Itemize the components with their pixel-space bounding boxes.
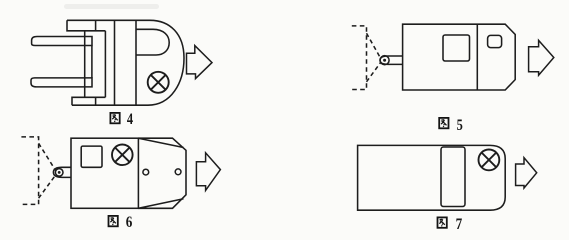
hitch triangle lower dashed line xyxy=(367,62,382,82)
upper fork heel line xyxy=(84,37,86,46)
roof hatch window xyxy=(443,35,470,61)
faint print-through smudge xyxy=(64,4,159,9)
caption glyph 图 (fig 6) xyxy=(109,216,118,226)
mast bottom bar xyxy=(72,97,105,105)
travel arrow (fig 6) xyxy=(196,153,220,191)
mast inner upright xyxy=(104,31,106,98)
travel arrow (fig 5) xyxy=(529,40,554,75)
hitch triangle lower dashed line (fig 6) xyxy=(39,175,56,199)
caption glyph 图 (fig 4) xyxy=(110,113,119,123)
drive axle mark cross (fig 7) xyxy=(482,153,497,168)
lower fork heel line xyxy=(84,78,86,87)
mast right upright xyxy=(114,20,116,105)
left headlight xyxy=(143,169,149,175)
steering column bowl xyxy=(136,29,169,55)
hitch pin circle xyxy=(380,56,389,65)
hitch pin dot (fig 6) xyxy=(58,171,61,174)
drawbar (fig 6) xyxy=(53,167,71,177)
towed implement dashed box (fig 5) xyxy=(352,26,367,90)
roof window (fig 6) xyxy=(81,146,102,167)
hitch pin circle (fig 6) xyxy=(55,169,63,177)
hood outline (fig 6) xyxy=(138,138,186,208)
cab window xyxy=(488,35,502,47)
tractor cab body (fig 6) xyxy=(71,138,138,208)
travel arrow (fig 4) xyxy=(187,46,213,79)
right headlight xyxy=(175,169,181,175)
hitch triangle upper dashed line xyxy=(367,33,382,59)
drawbar (fig 5) xyxy=(380,56,403,64)
mast bottom bar divider xyxy=(95,97,97,105)
drive axle mark circle (fig 7) xyxy=(479,150,500,171)
svg-text:4: 4 xyxy=(127,111,133,128)
cab divider xyxy=(476,24,478,90)
towed implement dashed box (fig 6) xyxy=(21,137,38,205)
hitch triangle upper dashed line (fig 6) xyxy=(39,143,56,171)
drive axle mark cross xyxy=(151,75,166,90)
forklift body outline (fig 4) xyxy=(67,20,184,105)
caption glyph 图 (fig 5) xyxy=(439,118,448,128)
mast top bar xyxy=(67,20,105,31)
svg-text:7: 7 xyxy=(456,216,463,233)
hitch pin dot xyxy=(383,59,386,62)
hood top inner slant xyxy=(138,138,183,147)
svg-text:5: 5 xyxy=(457,117,463,134)
tractor body (fig 5) xyxy=(403,24,516,90)
steering mark circle (fig 6) xyxy=(112,145,133,166)
travel arrow (fig 7) xyxy=(516,158,537,188)
truck body (fig 7) xyxy=(358,145,506,210)
cab panel (fig 7) xyxy=(441,147,465,207)
caption glyph 图 (fig 7) xyxy=(438,217,447,227)
mast top bar divider xyxy=(95,20,97,31)
lower fork xyxy=(31,78,92,87)
upper fork xyxy=(32,37,92,46)
steering mark cross xyxy=(115,148,130,163)
carriage segment between forks xyxy=(91,46,93,78)
carriage bar xyxy=(84,31,86,98)
svg-text:6: 6 xyxy=(126,214,133,231)
drive axle mark circle (fig 4) xyxy=(148,72,169,93)
hood bottom inner slant xyxy=(138,199,183,209)
steering column stem xyxy=(135,20,137,105)
